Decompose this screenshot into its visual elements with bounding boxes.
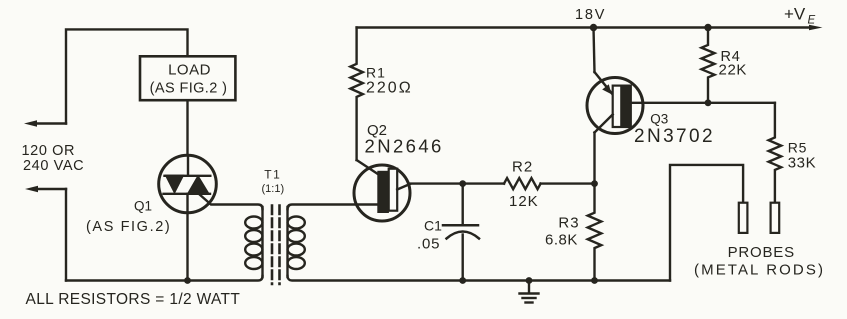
svg-text:Q1: Q1 (134, 199, 152, 214)
svg-text:12K: 12K (509, 193, 539, 210)
junction C1 top (459, 180, 466, 187)
svg-text:+V: +V (784, 5, 806, 24)
load box LOAD (140, 56, 235, 100)
AC terminal arrow 1 (24, 120, 66, 127)
svg-text:Q3: Q3 (650, 112, 668, 127)
junction Q1-bottom rail (184, 277, 191, 284)
wire T1 secondary bottom to main bottom rail (288, 276, 671, 281)
transformer T1 secondary winding (288, 207, 305, 277)
svg-text:18V: 18V (575, 7, 606, 23)
top rail 18V (357, 26, 808, 28)
svg-text:(AS FIG.2 ): (AS FIG.2 ) (150, 81, 228, 97)
svg-text:LOAD: LOAD (168, 62, 211, 79)
svg-text:(METAL RODS): (METAL RODS) (694, 262, 825, 279)
svg-text:33K: 33K (788, 155, 817, 172)
transformer T1 primary winding (245, 207, 262, 277)
wire R1 to Q2 base2 (357, 160, 379, 175)
wire Q3 collector to R2/R3 node (593, 133, 595, 184)
transformer T1 core (272, 206, 280, 285)
svg-text:ALL RESISTORS = 1/2 WATT: ALL RESISTORS = 1/2 WATT (26, 291, 241, 308)
svg-text:.05: .05 (417, 236, 440, 253)
svg-text:2N2646: 2N2646 (365, 136, 444, 157)
wire Q3 base to R4/R5 (631, 102, 775, 104)
svg-text:R5: R5 (788, 140, 808, 156)
svg-text:R1: R1 (366, 65, 386, 81)
unijunction transistor Q2 (354, 165, 410, 221)
svg-text:240 VAC: 240 VAC (23, 158, 84, 174)
wire R2 to node (541, 182, 595, 184)
resistor R4 (702, 28, 715, 103)
ground (520, 277, 539, 302)
svg-text:E: E (808, 15, 816, 27)
svg-text:6.8K: 6.8K (545, 232, 578, 249)
junction R2/R3/Q3 (591, 180, 598, 187)
svg-text:(1:1): (1:1) (261, 183, 284, 195)
wire top-left AC line to LOAD (66, 29, 188, 123)
junction 18V node (590, 24, 597, 31)
resistor R1 (350, 28, 362, 161)
svg-text:T1: T1 (264, 168, 281, 182)
wire AC lower to bottom rail (65, 189, 67, 281)
+VE arrowhead (809, 25, 823, 31)
junction R3 bottom (591, 277, 598, 284)
capacitor C1 (443, 184, 479, 281)
transistor Q3 (587, 72, 643, 134)
wire 18V to Q3 emitter (594, 28, 595, 73)
svg-text:120 OR: 120 OR (22, 143, 76, 159)
svg-text:R2: R2 (512, 159, 533, 176)
svg-text:C1: C1 (424, 218, 442, 234)
triac Q1 (159, 155, 217, 213)
wire bottom rail to left probe (670, 165, 743, 281)
resistor R2 (504, 178, 541, 189)
probe left (metal rod) (739, 203, 748, 233)
junction R4 top (704, 24, 711, 31)
svg-text:(AS FIG.2): (AS FIG.2) (86, 219, 171, 235)
probe right (metal rod) (771, 203, 780, 233)
bottom rail left (66, 276, 263, 281)
svg-text:2N3702: 2N3702 (634, 126, 715, 147)
svg-text:22K: 22K (719, 62, 748, 79)
junction R4 bottom (705, 99, 712, 106)
wire Q1 gate to T1 primary (199, 194, 263, 209)
resistor R3 (588, 184, 602, 281)
AC terminal arrow 2 (25, 186, 66, 193)
wire LOAD to Q1 (186, 100, 188, 155)
resistor R5 (769, 103, 782, 203)
svg-text:R3: R3 (558, 215, 579, 232)
svg-text:PROBES: PROBES (728, 244, 795, 261)
wire Q2 base1 to R2 node (410, 182, 504, 184)
junction C1 bottom (459, 277, 466, 284)
wire Q1 anode to bottom rail (186, 194, 188, 281)
wire T1 secondary top to Q2 emitter (288, 205, 378, 210)
svg-text:220Ω: 220Ω (366, 80, 413, 97)
